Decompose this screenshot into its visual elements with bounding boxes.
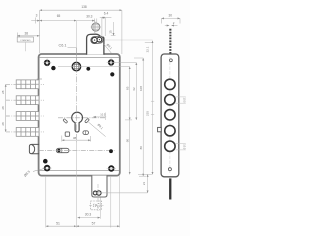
hole ring top-right: [107, 58, 116, 67]
plate left notch: [158, 127, 162, 131]
right vertical dim B 62: [114, 63, 137, 120]
plate hole 4: [165, 126, 175, 136]
deadbolt 4: [16, 128, 39, 137]
plate hole 1: [165, 79, 175, 89]
dim 30: [162, 18, 181, 23]
svg-text:30: 30: [169, 14, 173, 18]
plate hole 3: [165, 110, 175, 120]
svg-text:30.3: 30.3: [86, 14, 92, 18]
svg-text:6.4: 6.4: [104, 11, 109, 15]
capsule centerline: [39, 149, 115, 151]
inner cover plate bottom line: [40, 170, 119, 172]
inner cover plate top line: [40, 56, 119, 58]
dim row2: 3 / 65 / 30.3: [31, 18, 94, 34]
dim 51 bottom: [46, 225, 77, 227]
threaded hole C6.1: [72, 62, 80, 70]
small square: [65, 132, 69, 136]
dim 57 bottom: [76, 225, 119, 227]
svg-text:15: 15: [109, 30, 113, 34]
hole filled top-left: [51, 66, 55, 70]
hole ring top-left: [43, 59, 52, 68]
dim 30.3 bottom: [78, 217, 101, 219]
plate screw top: [170, 59, 173, 62]
ext lines bottom: [46, 141, 120, 228]
svg-text:C.MBOA 5: C.MBOA 5: [20, 39, 31, 42]
svg-text:85: 85: [126, 86, 130, 90]
plate screw bottom: [168, 168, 171, 171]
svg-text:65: 65: [57, 14, 61, 18]
cam circle left: [92, 37, 98, 43]
dim 2: [165, 25, 178, 27]
latch bolt: [29, 144, 39, 153]
right vertical dim A 85: [58, 67, 132, 175]
hole ring right-low: [109, 166, 114, 171]
svg-text:10.5: 10.5: [100, 113, 106, 117]
plate hole 2: [165, 95, 175, 105]
cam follower capsule: [91, 36, 104, 44]
top disc: [91, 22, 101, 33]
plate hole 5: [165, 141, 175, 151]
hole filled bottom-left: [43, 159, 48, 164]
cam circle right: [97, 37, 102, 42]
hole ring bottom-left: [45, 166, 50, 171]
hole filled right-low: [109, 149, 113, 153]
svg-text:28: 28: [1, 106, 5, 110]
plate dim hole5: [176, 144, 186, 150]
svg-text:21: 21: [142, 182, 146, 186]
svg-text:108: 108: [139, 86, 143, 91]
leader cam: [104, 44, 112, 54]
top dashed bar: [169, 29, 171, 54]
svg-text:30.3: 30.3: [85, 213, 92, 217]
svg-text:57: 57: [92, 221, 96, 225]
svg-text:38: 38: [25, 31, 29, 35]
keyhole centerline h: [58, 117, 106, 119]
svg-text:38: 38: [73, 136, 77, 140]
slider capsule: [56, 148, 69, 152]
deadbolt 2: [16, 96, 39, 105]
left dim chain 28/28/28: [6, 84, 10, 132]
svg-text:28: 28: [1, 122, 5, 126]
bottom mech circles: [93, 191, 97, 195]
dim 6.4: [100, 17, 112, 19]
svg-text:62: 62: [132, 87, 136, 91]
small dim right of keyhole: [93, 113, 106, 121]
body centerline v: [75, 48, 77, 143]
right vertical dim D 235: [145, 41, 153, 175]
leader keyhole: [89, 122, 106, 136]
svg-text:C6.1: C6.1: [58, 44, 66, 48]
small pill: [83, 131, 89, 135]
svg-text:90: 90: [126, 139, 130, 143]
projection line: [105, 39, 153, 41]
plate dim hole2: [176, 97, 186, 103]
svg-text:3: 3: [36, 14, 38, 18]
deadbolt 3: [16, 112, 39, 121]
svg-text:22.1: 22.1: [145, 46, 149, 52]
svg-text:80: 80: [139, 146, 143, 150]
slot lines: [95, 18, 106, 36]
bottom mechanism box: [92, 176, 107, 198]
angled pill left: [63, 119, 68, 124]
cam blob top mechanism: [87, 34, 104, 54]
svg-text:51: 51: [56, 221, 60, 225]
dim 15: [111, 22, 116, 36]
dim 38 below keyhole: [62, 136, 91, 142]
svg-text:28: 28: [1, 90, 5, 94]
angled pill right: [85, 118, 90, 123]
dashed alt position box: [91, 201, 102, 210]
hole filled right: [110, 72, 114, 76]
euro cylinder keyhole: [72, 112, 83, 132]
bottom mech centerline h: [91, 192, 147, 194]
tick on left edge: [37, 78, 42, 80]
svg-text:10.5: 10.5: [183, 144, 187, 150]
deadbolt 1: [16, 80, 39, 89]
plate centerline: [169, 57, 171, 173]
faceplate: [161, 54, 179, 177]
lock body outline: [39, 54, 120, 176]
bottom rod: [169, 178, 171, 199]
dim 21 right of bottom mech: [138, 174, 152, 193]
hole filled mid: [86, 67, 90, 71]
dim 138 top: [40, 10, 122, 54]
svg-text:10.5: 10.5: [183, 98, 187, 104]
svg-text:138: 138: [81, 5, 87, 9]
bottom mech centerline v: [97, 184, 99, 212]
svg-text:235: 235: [146, 111, 150, 116]
bolt centerlines: [6, 84, 44, 132]
right vertical dim C 108: [134, 58, 146, 176]
